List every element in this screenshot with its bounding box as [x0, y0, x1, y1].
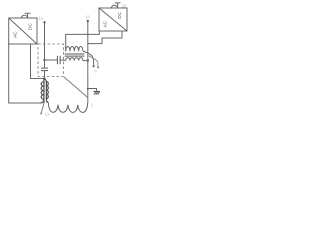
svg-text:DC: DC — [28, 23, 33, 30]
wire U1 pin2 to helix top — [31, 44, 46, 79]
U1 label DC — [28, 23, 33, 30]
U1 label AC — [12, 31, 17, 38]
callout numeral 16 — [39, 16, 44, 21]
vertical bus wire — [87, 21, 89, 103]
svg-text:20: 20 — [122, 4, 127, 9]
capacitor C2 (shunt) wires — [44, 60, 46, 79]
converter U2 (AC/DC) box — [99, 8, 127, 31]
leader line from network box — [64, 77, 88, 98]
capacitor C1 plates — [57, 56, 60, 64]
terminal wire P2 — [88, 56, 98, 67]
U2 label AC — [102, 20, 107, 27]
callout numeral 12 — [45, 112, 50, 117]
U1 mains plug terminal — [21, 13, 30, 18]
node A terminal stub — [44, 23, 46, 61]
svg-text:DC: DC — [117, 11, 122, 18]
T1 primary right lead to terminal — [83, 51, 94, 65]
wire U1 pin1 left down — [9, 44, 41, 103]
leader arrow to L1 — [41, 101, 44, 113]
junction N3 — [87, 59, 89, 61]
capacitor C1 (series) wires — [45, 59, 66, 61]
svg-text:2: 2 — [91, 102, 94, 107]
callout numeral 2 — [91, 102, 94, 107]
junction N4 — [87, 88, 89, 90]
T1 primary left lead / wire to U2 pin1 — [66, 31, 100, 51]
capacitor C2 plates — [41, 68, 48, 71]
U2 label DC — [117, 11, 122, 18]
leader arrowhead — [40, 113, 42, 115]
svg-text:12: 12 — [45, 112, 50, 117]
inductor L2 loop coil — [48, 102, 87, 112]
transformer T1 secondary winding — [66, 58, 83, 61]
terminal dot P2 — [97, 66, 99, 68]
svg-text:s: s — [95, 69, 97, 74]
svg-text:AC: AC — [12, 31, 17, 38]
terminal dot P1 — [92, 65, 94, 67]
svg-text:18: 18 — [85, 14, 90, 19]
callout label Ps — [95, 69, 97, 74]
dashed matching network box — [38, 44, 64, 77]
transformer T1 primary winding — [66, 46, 83, 51]
svg-text:AC: AC — [102, 20, 107, 27]
T1 secondary right lead — [83, 60, 88, 62]
junction N2 — [43, 78, 45, 80]
L1 left bumps — [41, 82, 44, 99]
converter U1 (AC/DC) box — [9, 18, 37, 44]
node A terminal dot — [43, 21, 45, 23]
U2 mains plug terminal — [111, 3, 120, 8]
callout numeral 18 — [85, 14, 90, 19]
ground — [93, 91, 100, 94]
L1 right bumps — [46, 82, 48, 99]
svg-text:16: 16 — [39, 16, 44, 21]
inductor L1 helix right spine — [44, 79, 48, 102]
inductor L1 helix left spine — [40, 79, 44, 103]
bus terminal dot — [87, 20, 89, 22]
wire bus to U2 pin2 — [88, 31, 122, 44]
ground lead — [88, 89, 97, 92]
callout numeral 20 — [122, 4, 127, 9]
junction N1 — [43, 59, 45, 61]
transformer T1 core — [65, 54, 85, 56]
